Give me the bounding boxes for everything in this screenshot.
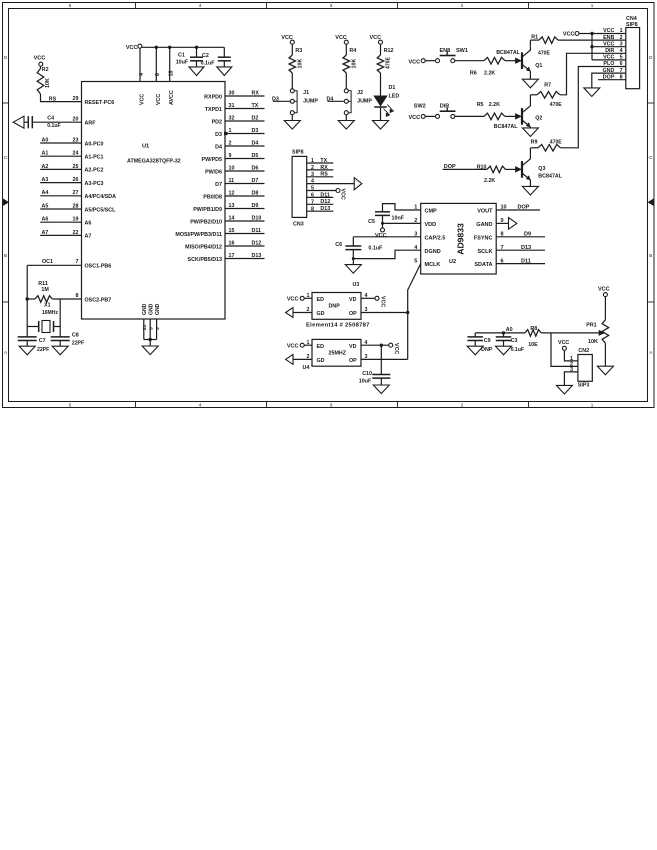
ground at U2 DGND bbox=[345, 265, 361, 274]
svg-text:J1: J1 bbox=[303, 90, 309, 96]
svg-text:RXPD0: RXPD0 bbox=[204, 94, 222, 100]
svg-text:0.1uF: 0.1uF bbox=[47, 123, 60, 129]
svg-text:6: 6 bbox=[311, 193, 314, 199]
svg-text:ENB: ENB bbox=[603, 35, 614, 41]
svg-text:RX: RX bbox=[252, 90, 260, 96]
wire branch to CN2 pin 2 bbox=[551, 333, 578, 367]
svg-text:RESET-PC6: RESET-PC6 bbox=[85, 100, 115, 106]
svg-text:31: 31 bbox=[229, 103, 235, 109]
svg-text:OSC2-PB7: OSC2-PB7 bbox=[85, 297, 112, 303]
CN3 pin 6 net D11 bbox=[307, 196, 334, 198]
svg-text:17: 17 bbox=[229, 253, 235, 259]
wire net A6 to U1 pin 19 bbox=[40, 221, 81, 223]
svg-text:A1-PC1: A1-PC1 bbox=[85, 155, 104, 161]
svg-text:D11: D11 bbox=[252, 228, 262, 234]
svg-text:R11: R11 bbox=[38, 281, 48, 287]
svg-text:D6: D6 bbox=[252, 165, 259, 171]
svg-text:1: 1 bbox=[591, 3, 594, 8]
svg-text:21: 21 bbox=[142, 324, 148, 330]
svg-text:10K: 10K bbox=[588, 339, 598, 345]
transistor Q3 BC847AL bbox=[521, 161, 523, 178]
ground at CN2 pin 3 bbox=[556, 385, 572, 394]
wire R5 to Q2 base bbox=[505, 115, 516, 117]
svg-text:VCC: VCC bbox=[287, 343, 299, 349]
svg-text:D4: D4 bbox=[215, 144, 222, 150]
capacitor C3 0.1uF bbox=[503, 333, 505, 337]
svg-text:D4: D4 bbox=[327, 96, 334, 102]
svg-text:R3: R3 bbox=[295, 48, 302, 54]
svg-text:3: 3 bbox=[365, 354, 368, 360]
VCC symbol at U2 VDD bbox=[381, 228, 385, 232]
svg-text:D2: D2 bbox=[252, 115, 259, 121]
svg-text:ARF: ARF bbox=[85, 121, 97, 127]
svg-text:GD: GD bbox=[317, 358, 325, 364]
svg-text:C9: C9 bbox=[484, 338, 491, 344]
svg-text:14: 14 bbox=[229, 215, 235, 221]
capacitor C9 DNP bbox=[474, 333, 476, 337]
jumper J1 bbox=[291, 73, 293, 89]
wire DIR to CN4 pin 4 bbox=[560, 53, 626, 95]
CN3 pin 3 net RS bbox=[307, 176, 334, 178]
svg-text:2: 2 bbox=[311, 165, 314, 171]
svg-text:2: 2 bbox=[307, 307, 310, 313]
svg-text:JUMP: JUMP bbox=[303, 99, 318, 105]
svg-text:PLO: PLO bbox=[603, 61, 614, 67]
capacitor C4 0.1uF bbox=[24, 121, 28, 123]
svg-text:AD9833: AD9833 bbox=[456, 223, 466, 255]
wire U2 pin 6 net D11 bbox=[496, 263, 545, 265]
svg-text:D7: D7 bbox=[215, 182, 222, 188]
svg-text:1: 1 bbox=[307, 340, 310, 346]
off-page flag at CN3 pin 4 bbox=[354, 178, 362, 190]
wire net A5 to U1 pin 28 bbox=[40, 208, 81, 210]
svg-text:D13: D13 bbox=[521, 245, 531, 251]
ground below C7 bbox=[19, 346, 35, 355]
svg-text:VCC: VCC bbox=[558, 340, 569, 346]
CN3 pin 7 net D12 bbox=[307, 203, 334, 205]
svg-text:A0: A0 bbox=[506, 327, 513, 333]
svg-text:OP: OP bbox=[349, 311, 357, 317]
svg-text:DGND: DGND bbox=[425, 249, 441, 255]
svg-text:OC1: OC1 bbox=[42, 259, 53, 265]
svg-text:A0: A0 bbox=[42, 137, 49, 143]
svg-text:R4: R4 bbox=[349, 48, 356, 54]
svg-text:13: 13 bbox=[229, 203, 235, 209]
capacitor C10 10uF bbox=[380, 345, 382, 374]
wire ENB to CN4 pin 2 bbox=[558, 39, 626, 41]
svg-text:ED: ED bbox=[317, 297, 325, 303]
svg-text:SCK/PB5/D13: SCK/PB5/D13 bbox=[188, 257, 222, 263]
svg-text:D7: D7 bbox=[252, 178, 259, 184]
svg-text:D11: D11 bbox=[521, 258, 531, 264]
svg-text:VCC: VCC bbox=[156, 94, 162, 105]
svg-text:VCC: VCC bbox=[34, 55, 46, 61]
svg-text:A4: A4 bbox=[42, 190, 49, 196]
svg-text:A2-PC2: A2-PC2 bbox=[85, 168, 104, 174]
svg-text:VCC: VCC bbox=[140, 94, 146, 105]
wire VCC to U1 pin 4 bbox=[139, 48, 141, 81]
svg-text:D4: D4 bbox=[252, 140, 259, 146]
svg-text:GND: GND bbox=[149, 303, 155, 315]
svg-text:470E: 470E bbox=[550, 139, 562, 145]
svg-text:2.2K: 2.2K bbox=[484, 70, 495, 76]
wire Q1 collector to R1 bbox=[529, 40, 531, 46]
svg-text:VCC: VCC bbox=[393, 343, 399, 354]
svg-text:A1: A1 bbox=[42, 151, 49, 157]
resistor R5 2.2K bbox=[484, 113, 505, 120]
ground below C3 bbox=[496, 346, 512, 355]
U4 pin 1 ED to VCC bbox=[304, 344, 312, 346]
wire Q2 collector to R7 bbox=[529, 95, 531, 102]
svg-text:RS: RS bbox=[320, 172, 328, 178]
svg-text:TX: TX bbox=[252, 103, 259, 109]
svg-text:OSC1-PB6: OSC1-PB6 bbox=[85, 264, 112, 270]
svg-text:D3: D3 bbox=[272, 96, 279, 102]
wire VCC bus to CN4 pins 1 3 5 bbox=[592, 33, 626, 35]
resistor R4 10K bbox=[345, 44, 347, 55]
ground at CN4 pin 7 bbox=[584, 88, 600, 97]
svg-text:Element14 # 2508787: Element14 # 2508787 bbox=[306, 322, 370, 328]
svg-text:A0-PC0: A0-PC0 bbox=[85, 141, 104, 147]
svg-text:R7: R7 bbox=[544, 83, 551, 89]
svg-text:12: 12 bbox=[229, 190, 235, 196]
svg-text:3: 3 bbox=[365, 307, 368, 313]
wire VCC to U1 pin 6 bbox=[155, 46, 158, 49]
svg-text:PB0/D8: PB0/D8 bbox=[203, 194, 222, 200]
svg-text:5: 5 bbox=[69, 402, 72, 407]
svg-text:BC847AL: BC847AL bbox=[496, 50, 520, 56]
svg-text:D1: D1 bbox=[389, 85, 396, 91]
svg-text:PW/PD5: PW/PD5 bbox=[202, 157, 223, 163]
resistor R1 470E bbox=[539, 37, 558, 44]
svg-text:10K: 10K bbox=[298, 59, 304, 69]
capacitor C2 0.1uF bbox=[223, 47, 225, 57]
svg-text:U4: U4 bbox=[303, 365, 310, 371]
svg-text:A6: A6 bbox=[85, 221, 92, 227]
svg-text:2.2K: 2.2K bbox=[489, 102, 500, 108]
svg-text:R2: R2 bbox=[42, 67, 49, 73]
svg-text:VOUT: VOUT bbox=[477, 209, 493, 215]
U3 pin 3 OP bbox=[361, 312, 408, 314]
wire VCC to CN2 pin 1 bbox=[564, 350, 578, 361]
capacitor C8 22PF bbox=[59, 327, 61, 337]
svg-text:A3-PC3: A3-PC3 bbox=[85, 181, 104, 187]
svg-text:VCC: VCC bbox=[340, 189, 346, 200]
resistor R10 2.2K bbox=[487, 166, 506, 173]
svg-text:PW/D6: PW/D6 bbox=[205, 169, 222, 175]
svg-text:R6: R6 bbox=[470, 70, 477, 76]
svg-text:DIR: DIR bbox=[605, 48, 614, 54]
wire stub CN4 pin 8 DOP bbox=[598, 79, 626, 81]
resistor R2 10K bbox=[40, 66, 42, 68]
svg-text:VCC: VCC bbox=[126, 45, 138, 51]
wire net D4 to J2 bbox=[328, 100, 345, 102]
svg-text:SIP8: SIP8 bbox=[292, 149, 304, 155]
svg-text:5: 5 bbox=[311, 186, 314, 192]
svg-text:2: 2 bbox=[307, 354, 310, 360]
wire net A4 to U1 pin 27 bbox=[40, 195, 81, 197]
svg-text:30: 30 bbox=[229, 90, 235, 96]
ground below U1 bbox=[142, 346, 158, 355]
wire OSC2 to U1 pin 8 bbox=[52, 298, 81, 300]
svg-text:470E: 470E bbox=[386, 57, 392, 69]
svg-text:DOP: DOP bbox=[518, 205, 530, 211]
svg-text:ATMEGA328TQFP-32: ATMEGA328TQFP-32 bbox=[127, 159, 181, 165]
ground below C2 bbox=[217, 67, 232, 76]
svg-text:VCC: VCC bbox=[287, 296, 299, 302]
wire CN4 pin 7 to ground bbox=[592, 73, 626, 88]
svg-text:16MHz: 16MHz bbox=[42, 310, 59, 316]
svg-text:3: 3 bbox=[570, 367, 573, 373]
svg-text:PR1: PR1 bbox=[586, 323, 596, 329]
svg-text:3: 3 bbox=[330, 402, 333, 407]
svg-text:A4/PC4/SDA: A4/PC4/SDA bbox=[85, 194, 117, 200]
svg-text:C7: C7 bbox=[39, 338, 46, 344]
svg-text:2: 2 bbox=[461, 3, 464, 8]
svg-text:D3: D3 bbox=[215, 132, 222, 138]
svg-text:JUMP: JUMP bbox=[357, 99, 372, 105]
svg-text:10uF: 10uF bbox=[176, 59, 189, 65]
svg-text:A2: A2 bbox=[42, 164, 49, 170]
CN3 pin 5 bbox=[307, 190, 336, 192]
U4 pin 2 GD flag bbox=[293, 358, 312, 360]
svg-text:BC847AL: BC847AL bbox=[538, 174, 562, 180]
svg-text:3: 3 bbox=[330, 3, 333, 8]
resistor R6 2.2K bbox=[484, 57, 505, 64]
svg-text:1: 1 bbox=[311, 158, 314, 164]
wire net A0 bbox=[475, 332, 525, 334]
resistor R8 10E bbox=[525, 330, 541, 337]
svg-text:ED: ED bbox=[317, 344, 325, 350]
ground below Q2 emitter bbox=[529, 126, 531, 129]
svg-text:C5: C5 bbox=[368, 219, 375, 225]
svg-text:DNP: DNP bbox=[481, 347, 493, 353]
svg-text:R1: R1 bbox=[531, 35, 538, 41]
LED D1 bbox=[380, 73, 382, 96]
wire U2 pin 7 net D13 bbox=[496, 249, 545, 251]
svg-text:OP: OP bbox=[349, 358, 357, 364]
wire net A1 to U1 pin 24 bbox=[40, 155, 81, 157]
svg-text:GAND: GAND bbox=[476, 222, 492, 228]
svg-text:MISO/PB4/D12: MISO/PB4/D12 bbox=[185, 244, 222, 250]
svg-text:A5: A5 bbox=[42, 203, 49, 209]
svg-text:1M: 1M bbox=[41, 287, 49, 293]
svg-text:1: 1 bbox=[307, 293, 310, 299]
wire VCC to U1 pin 18 bbox=[168, 46, 171, 49]
svg-text:RX: RX bbox=[320, 165, 328, 171]
svg-text:2: 2 bbox=[620, 35, 623, 41]
wire OSC1 to pin 7 bbox=[27, 264, 81, 266]
svg-text:VCC: VCC bbox=[380, 296, 386, 307]
transistor Q1 BC847AL bbox=[521, 52, 523, 69]
svg-text:C3: C3 bbox=[511, 338, 518, 344]
svg-text:A5/PC5/SCL: A5/PC5/SCL bbox=[85, 207, 117, 213]
crystal X1 16MHz bbox=[26, 299, 28, 327]
svg-text:6: 6 bbox=[155, 73, 161, 76]
svg-text:C4: C4 bbox=[47, 116, 54, 122]
wire net A2 to U1 pin 25 bbox=[40, 168, 81, 170]
svg-text:C1: C1 bbox=[178, 53, 185, 59]
svg-text:10: 10 bbox=[229, 165, 235, 171]
svg-text:C6: C6 bbox=[335, 242, 342, 248]
svg-text:R8: R8 bbox=[530, 326, 537, 332]
wire R10 to Q3 base bbox=[506, 168, 516, 170]
svg-text:MCLK: MCLK bbox=[425, 262, 441, 268]
ground below D1 bbox=[380, 107, 382, 121]
svg-text:R5: R5 bbox=[477, 102, 484, 108]
svg-text:2: 2 bbox=[461, 402, 464, 407]
U3 pin 2 GD flag bbox=[293, 312, 312, 314]
wire OSC1 branch down bbox=[26, 265, 28, 299]
svg-text:3: 3 bbox=[155, 327, 161, 330]
svg-text:D13: D13 bbox=[320, 206, 330, 212]
svg-text:1: 1 bbox=[591, 402, 594, 407]
svg-text:Q2: Q2 bbox=[535, 115, 542, 121]
svg-text:C10: C10 bbox=[362, 371, 372, 377]
svg-text:32: 32 bbox=[229, 115, 235, 121]
resistor R3 10K bbox=[291, 44, 293, 55]
svg-text:0.1uF: 0.1uF bbox=[201, 60, 216, 66]
wire CN2 pin 3 to ground bbox=[564, 372, 578, 386]
svg-text:8: 8 bbox=[76, 293, 79, 299]
svg-text:8: 8 bbox=[311, 206, 314, 212]
svg-text:2.2K: 2.2K bbox=[484, 178, 495, 184]
input flag AREF bbox=[13, 116, 24, 128]
svg-text:U2: U2 bbox=[449, 259, 456, 265]
svg-text:Q3: Q3 bbox=[538, 166, 545, 172]
svg-text:GND: GND bbox=[142, 303, 148, 315]
resistor R9 470E bbox=[538, 145, 561, 152]
svg-text:7: 7 bbox=[311, 199, 314, 205]
svg-text:9: 9 bbox=[229, 153, 232, 159]
jumper J2 bbox=[345, 73, 347, 89]
transistor Q2 BC847AL bbox=[521, 108, 523, 125]
svg-text:VCC: VCC bbox=[409, 59, 421, 65]
ground below C10 bbox=[373, 385, 389, 394]
svg-text:10uF: 10uF bbox=[359, 378, 372, 384]
svg-text:10K: 10K bbox=[45, 78, 51, 88]
svg-text:B: B bbox=[4, 253, 7, 258]
wire RS reset net to U1 pin 29 bbox=[41, 94, 82, 102]
ground below C8 bbox=[52, 346, 68, 355]
svg-text:A7: A7 bbox=[42, 230, 49, 236]
ground below J1 bbox=[291, 115, 293, 121]
svg-text:D3: D3 bbox=[252, 128, 259, 134]
CN3 pin 4 bbox=[307, 183, 355, 185]
svg-text:VCC: VCC bbox=[409, 115, 421, 121]
svg-text:D10: D10 bbox=[252, 215, 262, 221]
svg-text:VCC: VCC bbox=[375, 233, 387, 239]
ground below J2 bbox=[345, 115, 347, 121]
svg-text:R9: R9 bbox=[531, 140, 538, 146]
svg-text:5: 5 bbox=[414, 258, 417, 264]
svg-text:22PF: 22PF bbox=[72, 341, 84, 347]
svg-text:C8: C8 bbox=[72, 333, 79, 339]
svg-text:B: B bbox=[649, 253, 652, 258]
svg-text:BC847AL: BC847AL bbox=[494, 124, 518, 130]
wire net D3 to J1 bbox=[273, 100, 290, 102]
svg-text:RS: RS bbox=[49, 96, 57, 102]
svg-text:0.1uF: 0.1uF bbox=[511, 347, 524, 353]
svg-text:SW2: SW2 bbox=[414, 104, 426, 110]
svg-text:TXPD1: TXPD1 bbox=[205, 107, 222, 113]
svg-text:D13: D13 bbox=[252, 253, 262, 259]
IC U2 AD9833 body bbox=[421, 203, 497, 274]
svg-text:18: 18 bbox=[169, 71, 175, 77]
svg-text:4: 4 bbox=[311, 179, 314, 185]
svg-text:C2: C2 bbox=[202, 53, 209, 59]
svg-text:PD2: PD2 bbox=[212, 119, 222, 125]
ground below C9 bbox=[467, 346, 483, 355]
U3 pin 4 wire to VCC bbox=[361, 297, 375, 299]
svg-text:J2: J2 bbox=[357, 90, 363, 96]
capacitor C5 10nF bbox=[375, 211, 390, 213]
svg-text:A6: A6 bbox=[42, 217, 49, 223]
wire to U1 pin 20 ARF bbox=[32, 121, 81, 123]
svg-text:SCLK: SCLK bbox=[478, 249, 493, 255]
svg-text:16: 16 bbox=[229, 240, 235, 246]
svg-text:CAP/2.5: CAP/2.5 bbox=[425, 235, 446, 241]
svg-text:4: 4 bbox=[139, 73, 145, 76]
CN3 pin 8 net D13 bbox=[307, 210, 334, 212]
svg-text:PW/PB1/D9: PW/PB1/D9 bbox=[193, 207, 222, 213]
svg-text:R12: R12 bbox=[384, 48, 394, 54]
svg-text:7: 7 bbox=[76, 259, 79, 265]
svg-text:X1: X1 bbox=[44, 302, 51, 308]
svg-text:A3: A3 bbox=[42, 177, 49, 183]
wire PR1 to ground bbox=[604, 343, 606, 366]
svg-text:470E: 470E bbox=[550, 102, 562, 108]
svg-text:D12: D12 bbox=[320, 199, 330, 205]
wire U2 pin 3 to C6 bbox=[353, 236, 420, 238]
svg-text:11: 11 bbox=[229, 178, 235, 184]
svg-text:D9: D9 bbox=[252, 203, 259, 209]
svg-text:U1: U1 bbox=[142, 144, 149, 150]
svg-text:10K: 10K bbox=[352, 59, 358, 69]
svg-text:15: 15 bbox=[229, 228, 235, 234]
svg-text:VD: VD bbox=[349, 297, 357, 303]
wire R8 to PR1 wiper bbox=[541, 332, 600, 334]
svg-text:CN2: CN2 bbox=[578, 348, 589, 354]
svg-text:0.1uF: 0.1uF bbox=[368, 245, 383, 251]
VCC symbol at CN3 pin 5 bbox=[336, 189, 340, 193]
svg-text:SW1: SW1 bbox=[456, 48, 468, 54]
svg-text:VDD: VDD bbox=[425, 222, 437, 228]
svg-text:10E: 10E bbox=[528, 342, 538, 348]
svg-text:6: 6 bbox=[620, 61, 623, 67]
CN3 pin 1 net TX bbox=[307, 162, 334, 164]
svg-text:1: 1 bbox=[229, 128, 232, 134]
capacitor C1 10uF bbox=[195, 46, 198, 49]
svg-text:PW/PB2/D10: PW/PB2/D10 bbox=[190, 219, 222, 225]
svg-text:5: 5 bbox=[149, 327, 155, 330]
wire U2 pin 5 MCLK to oscillator rail bbox=[408, 264, 421, 360]
svg-text:SDATA: SDATA bbox=[474, 262, 492, 268]
ground below PR1 bbox=[597, 366, 613, 375]
svg-text:MOSI/PW/PB3/D11: MOSI/PW/PB3/D11 bbox=[175, 232, 222, 238]
svg-text:FSYNC: FSYNC bbox=[474, 235, 493, 241]
oscillator U4 25MHZ bbox=[312, 339, 361, 366]
resistor R11 1M bbox=[26, 297, 29, 300]
IC U1 ATMEGA328TQFP-32 body bbox=[82, 82, 226, 320]
oscillator U3 DNP bbox=[312, 293, 361, 320]
svg-text:DNP: DNP bbox=[329, 304, 341, 310]
capacitor C7 22PF bbox=[26, 327, 28, 337]
U3 pin 1 ED to VCC bbox=[304, 297, 312, 299]
svg-text:SIP3: SIP3 bbox=[578, 383, 590, 389]
svg-text:R10: R10 bbox=[477, 164, 487, 170]
svg-text:10nF: 10nF bbox=[392, 215, 405, 221]
